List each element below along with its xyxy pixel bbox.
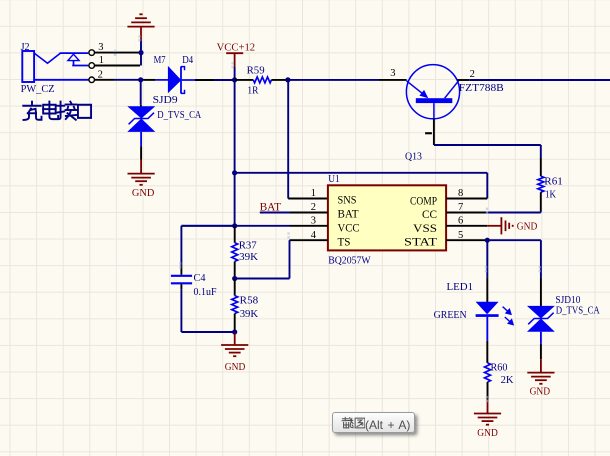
svg-text:GND: GND	[530, 386, 551, 398]
svg-text:0.1uF: 0.1uF	[194, 286, 217, 298]
svg-text:8: 8	[458, 188, 463, 199]
svg-text:BAT: BAT	[338, 208, 359, 220]
svg-text:4: 4	[311, 230, 317, 241]
svg-text:GREEN: GREEN	[434, 309, 467, 321]
svg-text:SJD9: SJD9	[153, 94, 179, 106]
svg-text:PW_CZ: PW_CZ	[21, 83, 55, 95]
svg-text:FZT788B: FZT788B	[459, 82, 504, 94]
svg-text:VCC: VCC	[338, 223, 360, 235]
svg-text:3: 3	[98, 42, 103, 53]
svg-text:R37: R37	[239, 239, 257, 251]
svg-text:5: 5	[458, 230, 463, 241]
svg-text:1R: 1R	[247, 85, 259, 97]
svg-text:J2: J2	[21, 41, 30, 53]
svg-text:BQ2057W: BQ2057W	[328, 254, 371, 266]
svg-text:2K: 2K	[501, 374, 514, 386]
svg-text:39K: 39K	[240, 308, 259, 320]
svg-text:CC: CC	[422, 209, 437, 221]
svg-text:GND: GND	[132, 187, 155, 199]
svg-text:3: 3	[390, 68, 395, 79]
svg-text:COMP: COMP	[410, 196, 437, 208]
svg-text:39K: 39K	[239, 251, 258, 263]
svg-text:2: 2	[98, 69, 103, 80]
svg-text:C4: C4	[194, 272, 206, 284]
svg-text:1: 1	[311, 188, 316, 199]
svg-text:6: 6	[458, 216, 463, 227]
svg-text:D_TVS_CA: D_TVS_CA	[157, 109, 201, 121]
svg-text:GND: GND	[477, 427, 498, 439]
svg-text:7: 7	[458, 202, 463, 213]
svg-text:U1: U1	[328, 173, 340, 185]
svg-text:1K: 1K	[545, 188, 556, 200]
svg-text:BAT: BAT	[260, 199, 282, 213]
svg-text:SNS: SNS	[338, 194, 357, 206]
svg-text:VSS: VSS	[413, 223, 437, 235]
svg-text:GND: GND	[225, 361, 246, 373]
svg-text:STAT: STAT	[404, 237, 437, 249]
svg-text:3: 3	[311, 216, 316, 227]
svg-text:R60: R60	[491, 361, 508, 373]
svg-text:GND: GND	[517, 220, 538, 232]
svg-text:D4: D4	[182, 54, 193, 66]
svg-text:D_TVS_CA: D_TVS_CA	[556, 305, 600, 317]
svg-text:VCC+12: VCC+12	[217, 41, 256, 53]
svg-text:LED1: LED1	[447, 281, 474, 293]
svg-text:R59: R59	[247, 65, 265, 77]
svg-text:M7: M7	[154, 54, 166, 66]
svg-text:1: 1	[99, 55, 104, 66]
svg-text:2: 2	[311, 202, 316, 213]
svg-text:R61: R61	[544, 175, 563, 187]
svg-text:R58: R58	[240, 294, 259, 306]
svg-text:TS: TS	[338, 237, 351, 249]
svg-text:2: 2	[470, 69, 475, 80]
svg-text:Q13: Q13	[405, 151, 422, 163]
